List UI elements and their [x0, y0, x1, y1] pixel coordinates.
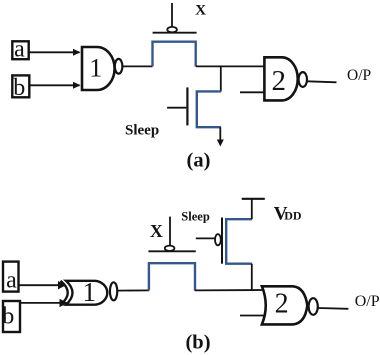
svg-text:1: 1: [89, 54, 102, 83]
svg-text:DD: DD: [284, 209, 302, 223]
svg-text:O/P: O/P: [347, 67, 371, 84]
svg-text:a: a: [6, 268, 17, 294]
svg-text:2: 2: [272, 65, 287, 97]
svg-text:b: b: [13, 75, 25, 101]
svg-text:(b): (b): [185, 332, 210, 354]
svg-text:Sleep: Sleep: [181, 209, 210, 223]
svg-text:Sleep: Sleep: [125, 122, 159, 138]
svg-text:(a): (a): [187, 149, 211, 171]
svg-text:2: 2: [275, 289, 289, 320]
svg-text:1: 1: [83, 277, 97, 307]
svg-text:X: X: [150, 221, 163, 241]
svg-text:X: X: [195, 3, 206, 19]
svg-text:b: b: [2, 303, 14, 329]
svg-text:O/P: O/P: [355, 293, 380, 310]
svg-text:a: a: [14, 36, 25, 62]
